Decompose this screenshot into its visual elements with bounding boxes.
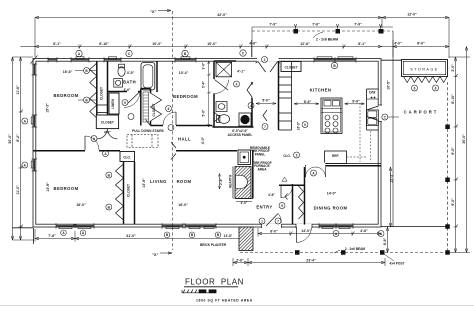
svg-text:PULL DOWN STAIRS: PULL DOWN STAIRS	[132, 129, 164, 133]
wall stub house to storage	[381, 59, 402, 61]
carport posts right edge	[445, 125, 450, 130]
4x4 post leader	[384, 254, 394, 261]
svg-text:11'-6": 11'-6"	[16, 85, 20, 95]
section line X top	[158, 9, 171, 11]
svg-text:30'-0": 30'-0"	[8, 134, 12, 144]
svg-text:4: 4	[250, 104, 252, 108]
bifold zigzag closet doors bedroom1	[90, 63, 97, 118]
svg-text:8'-1": 8'-1"	[53, 42, 61, 46]
corner tick top-left	[31, 56, 38, 64]
svg-text:3'-0": 3'-0"	[451, 64, 455, 72]
svg-text:4x4 POST: 4x4 POST	[390, 262, 405, 266]
bedroom3 closet box CLO	[120, 152, 135, 162]
storage unit	[402, 60, 448, 83]
bottom-left dimension line	[35, 229, 243, 242]
svg-text:6: 6	[414, 86, 416, 90]
svg-text:KITCHEN: KITCHEN	[310, 88, 332, 93]
svg-text:7'-6": 7'-6"	[48, 234, 56, 238]
svg-text:13'-8": 13'-8"	[224, 234, 233, 238]
bifold zigzag closet bedroom2	[143, 92, 162, 122]
storage door circles	[412, 85, 418, 91]
wall living top	[176, 150, 237, 152]
front porch beam dashed	[240, 252, 450, 254]
svg-text:7: 7	[264, 125, 266, 129]
pantry column left wall	[278, 61, 280, 130]
kitchen right counter	[367, 89, 379, 130]
svg-text:BEDROOM: BEDROOM	[53, 93, 78, 98]
kitchen-dining double doors	[306, 167, 326, 177]
linen closet box	[109, 93, 119, 114]
door opening right wall to carport	[378, 105, 382, 122]
svg-text:4'-5": 4'-5"	[127, 71, 135, 75]
beam label leader	[334, 250, 340, 253]
svg-text:BRICK PLANTER: BRICK PLANTER	[200, 243, 227, 247]
toilet bath2	[217, 115, 230, 124]
svg-text:CLOSET: CLOSET	[99, 87, 103, 100]
svg-text:9: 9	[304, 123, 306, 127]
wall bedroom3 closet column	[123, 162, 125, 225]
svg-text:8'-2": 8'-2"	[16, 134, 20, 142]
lavatory bath1	[114, 79, 123, 88]
svg-text:AREA: AREA	[257, 168, 267, 172]
second top dimension line	[21, 40, 450, 57]
wall bedroom2 / bath2	[213, 61, 215, 79]
hall closet box top	[281, 62, 301, 72]
svg-text:8'-10": 8'-10"	[451, 94, 455, 104]
svg-text:PANEL: PANEL	[255, 153, 266, 157]
wall bedroom1 closet left	[96, 61, 98, 115]
bottom-left corner extension ticks	[13, 227, 34, 229]
svg-text:6'-6": 6'-6"	[383, 237, 387, 245]
furnace box	[238, 150, 251, 165]
rotated dimension texts	[8, 62, 466, 245]
svg-text:10'-0": 10'-0"	[152, 42, 162, 46]
wall below bath1	[108, 91, 128, 93]
door bedroom2 to bath2	[215, 80, 229, 94]
wall bath2 right	[251, 82, 253, 85]
wall bedroom3 top	[33, 150, 85, 152]
window top wall kitchen	[314, 57, 356, 63]
svg-text:23'-4": 23'-4"	[306, 258, 316, 262]
svg-text:9: 9	[281, 204, 283, 208]
svg-text:HALL: HALL	[178, 136, 191, 141]
svg-text:5'-4": 5'-4"	[202, 81, 206, 88]
svg-text:12'-0": 12'-0"	[407, 12, 417, 16]
svg-text:ROOM: ROOM	[177, 179, 192, 184]
shower bath2	[216, 62, 232, 77]
wall entry closet right	[304, 167, 306, 225]
svg-text:14'-0": 14'-0"	[327, 192, 337, 196]
svg-text:6'-0": 6'-0"	[270, 229, 278, 233]
svg-text:6: 6	[168, 107, 170, 111]
kitchen dim arrows	[256, 102, 365, 105]
room name labels	[53, 66, 438, 211]
front door opening (bottom wall)	[262, 224, 282, 228]
svg-text:ACCESS PANEL: ACCESS PANEL	[228, 133, 253, 137]
dining porch door opening	[296, 224, 312, 228]
window bottom wall dining	[319, 223, 353, 228]
svg-text:5'-6": 5'-6"	[202, 109, 206, 116]
door hall to bath1	[124, 92, 140, 108]
window top wall bath	[104, 57, 121, 63]
svg-text:14'-0": 14'-0"	[301, 229, 311, 233]
wall kitchen / dining	[305, 165, 381, 167]
back door leaves	[256, 62, 280, 73]
faint scan line bottom	[0, 305, 474, 307]
exterior wall inner	[36, 61, 378, 224]
section line through house	[172, 61, 174, 227]
svg-text:3'-6": 3'-6"	[124, 88, 131, 92]
svg-text:5: 5	[124, 101, 126, 105]
svg-text:12'-6": 12'-6"	[300, 42, 310, 46]
svg-text:2: 2	[264, 58, 266, 62]
door opening back entry (top wall)	[257, 58, 279, 62]
window bottom wall living a	[162, 223, 183, 228]
wall entry closet left	[292, 184, 294, 225]
svg-text:STORAGE: STORAGE	[410, 68, 438, 72]
svg-text:7: 7	[277, 219, 279, 223]
svg-text:16'-0": 16'-0"	[178, 203, 188, 207]
svg-text:7'-9": 7'-9"	[269, 23, 277, 27]
range	[367, 110, 379, 126]
wall bedroom2 closet column	[140, 89, 142, 126]
svg-text:42'-0": 42'-0"	[217, 13, 227, 17]
svg-text:LINEN: LINEN	[111, 99, 115, 109]
svg-text:4'-0": 4'-0"	[394, 42, 402, 46]
bottom-left circled letters	[61, 230, 221, 238]
svg-text:HEARTH: HEARTH	[229, 174, 233, 188]
bifold zigzag closet bedroom3	[116, 164, 124, 220]
svg-text:4'-6": 4'-6"	[360, 229, 368, 233]
svg-text:4'-0": 4'-0"	[201, 136, 205, 144]
pull down stairs dashed	[127, 135, 158, 148]
window marks on exterior walls	[31, 57, 356, 229]
svg-text:BATH: BATH	[123, 79, 136, 84]
svg-text:15'-3": 15'-3"	[46, 103, 50, 113]
X section labels	[150, 9, 159, 257]
entry wall right of fireplace	[235, 150, 253, 199]
svg-text:4'-6": 4'-6"	[268, 193, 275, 197]
svg-text:13'-9": 13'-9"	[142, 178, 146, 188]
svg-text:4'-0": 4'-0"	[241, 201, 248, 205]
island sink	[324, 101, 331, 107]
2-2x6 beam label leader	[313, 32, 323, 38]
window top wall bedroom1 a	[48, 57, 57, 62]
refrigerator counter	[325, 103, 371, 164]
svg-text:6: 6	[435, 86, 437, 90]
svg-text:15'-3": 15'-3"	[390, 173, 394, 183]
svg-text:5'-0": 5'-0"	[262, 99, 270, 103]
svg-text:7'-6": 7'-6"	[312, 23, 320, 27]
svg-text:CARPORT: CARPORT	[404, 109, 439, 114]
svg-text:DINING ROOM: DINING ROOM	[314, 206, 348, 211]
wall hall top (bedroom2 bottom)	[151, 125, 164, 127]
svg-text:4'-1": 4'-1"	[237, 69, 245, 73]
svg-text:16'-6": 16'-6"	[63, 70, 73, 74]
island cooktop burners	[325, 115, 330, 120]
svg-text:4'-0": 4'-0"	[104, 131, 111, 135]
svg-text:"X": "X"	[152, 252, 159, 257]
kitchen island	[321, 98, 342, 134]
left dimension lines	[11, 57, 34, 240]
hearth dim line	[219, 174, 253, 202]
porch beam posts	[295, 250, 450, 255]
window bottom wall living b	[185, 223, 216, 228]
svg-text:30'-0": 30'-0"	[462, 134, 466, 144]
svg-text:1860 SQ FT HEATED AREA: 1860 SQ FT HEATED AREA	[196, 299, 253, 303]
svg-text:2'-6": 2'-6"	[236, 258, 244, 262]
bedroom2 interior dim line	[207, 61, 211, 127]
circled reference letters	[75, 50, 399, 224]
svg-text:11'-0": 11'-0"	[16, 185, 20, 195]
fireplace hearth hatched	[233, 167, 251, 199]
svg-text:9'-6": 9'-6"	[352, 100, 360, 104]
carport rear beam dashed	[252, 30, 393, 32]
window left wall y165	[31, 159, 37, 171]
svg-text:7'-9": 7'-9"	[354, 23, 362, 27]
wall closet/linen divider	[107, 61, 109, 115]
title FLOOR PLAN	[184, 278, 253, 303]
bottom 23'-4" dimension line	[233, 258, 385, 266]
door hall to bedroom2	[163, 112, 176, 125]
left wall window circles	[22, 118, 28, 124]
window bottom wall bedroom3	[56, 223, 94, 228]
wall bath2 top stub	[214, 60, 236, 62]
water heater	[239, 113, 251, 126]
svg-text:9'-0": 9'-0"	[451, 147, 455, 155]
svg-text:10'-0": 10'-0"	[207, 42, 217, 46]
svg-text:"X": "X"	[150, 9, 157, 14]
svg-text:31'-0": 31'-0"	[126, 234, 136, 238]
svg-text:1: 1	[261, 219, 263, 223]
house corner post top-right	[379, 29, 384, 34]
lavatory bath2	[216, 102, 227, 112]
svg-text:16'-0": 16'-0"	[76, 203, 86, 207]
svg-text:CLOSET: CLOSET	[285, 66, 298, 70]
svg-text:16'-9": 16'-9"	[297, 121, 301, 130]
small dimension texts	[48, 12, 425, 265]
svg-text:BEDROOM: BEDROOM	[173, 94, 198, 99]
svg-text:8'-1": 8'-1"	[358, 42, 366, 46]
svg-text:4'-6": 4'-6"	[249, 42, 257, 46]
right dimension lines	[449, 47, 470, 253]
svg-text:4: 4	[236, 82, 238, 86]
svg-text:CLOSET: CLOSET	[101, 121, 114, 125]
svg-text:BEDROOM: BEDROOM	[53, 186, 78, 191]
svg-text:REF.: REF.	[332, 154, 339, 158]
svg-text:ENTRY: ENTRY	[256, 205, 272, 210]
window left wall y68	[32, 64, 38, 75]
entry closet top + door header	[279, 184, 305, 186]
living room opening chevrons	[146, 120, 177, 160]
brick planter hatched	[239, 227, 253, 251]
svg-text:13'-9": 13'-9"	[46, 182, 50, 192]
wall bath1 / bedroom2	[156, 61, 158, 92]
pantry shelves	[279, 61, 292, 130]
dining side dim 15'-3"	[389, 167, 391, 227]
svg-text:9'-0": 9'-0"	[451, 198, 455, 206]
svg-text:10'-5": 10'-5"	[386, 80, 390, 90]
top dimension line 42'-0"	[35, 16, 449, 58]
bedroom1 corner closet box	[96, 115, 118, 129]
svg-text:D/W: D/W	[369, 91, 375, 95]
beam posts	[294, 29, 384, 34]
svg-text:CLO.: CLO.	[123, 155, 131, 159]
bottom-right dimension line	[258, 228, 381, 237]
svg-text:10'-4": 10'-4"	[179, 71, 189, 75]
entry-dining door 4'-6	[281, 177, 293, 199]
svg-text:3'-6": 3'-6"	[202, 62, 206, 69]
bathtub bath1	[141, 63, 155, 91]
window top wall bedroom1 b	[71, 57, 89, 63]
exterior wall outer	[33, 59, 381, 228]
svg-text:8'-6": 8'-6"	[304, 100, 312, 104]
svg-text:3: 3	[296, 153, 298, 157]
wall below bath2	[213, 126, 254, 128]
svg-text:CLO.: CLO.	[283, 154, 291, 158]
bifold zigzag entry coat closet	[299, 186, 304, 219]
door hall chevrons at bath2	[214, 83, 267, 122]
svg-text:2 - 2x6 BEAM: 2 - 2x6 BEAM	[316, 38, 338, 42]
graphic scale bar	[182, 289, 216, 293]
beam dimension line 7'-9 / 7'-6 / 7'-9	[252, 24, 393, 57]
carport bottom edge	[381, 226, 449, 228]
svg-text:8'-10": 8'-10"	[99, 42, 109, 46]
carport left edge line	[392, 31, 394, 227]
window top wall bedroom2	[175, 57, 196, 63]
svg-text:CLOSET: CLOSET	[152, 103, 156, 116]
bedroom1 closet double doors	[97, 129, 118, 139]
svg-text:2'-8": 2'-8"	[219, 178, 223, 185]
kitchen-dining door opening	[306, 163, 325, 167]
storage sawtooth shelving	[404, 77, 448, 83]
svg-text:8'-0": 8'-0"	[417, 42, 425, 46]
carport right dashed edge	[447, 82, 449, 250]
section line X bottom	[160, 252, 172, 254]
svg-text:FLOOR PLAN: FLOOR PLAN	[185, 278, 244, 287]
door hall to bedroom3	[85, 136, 99, 150]
toilet bath1	[118, 64, 125, 76]
svg-text:LIVING: LIVING	[150, 179, 167, 184]
window left wall y121	[31, 115, 37, 127]
svg-text:2 - 2x6 BEAM: 2 - 2x6 BEAM	[345, 247, 366, 251]
svg-text:CLOSET: CLOSET	[127, 184, 131, 197]
interior walls	[33, 61, 381, 225]
porch 6'-6" dim	[386, 227, 388, 253]
